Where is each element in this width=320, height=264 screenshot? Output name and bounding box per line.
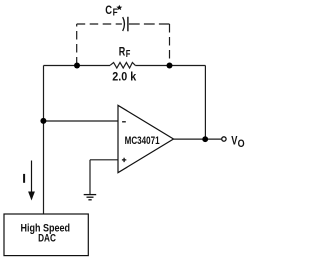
svg-text:O: O bbox=[238, 138, 245, 150]
wire: inverting input branch bbox=[44, 120, 119, 122]
svg-text:R: R bbox=[119, 45, 126, 59]
capacitor CF (straight plate) bbox=[127, 17, 129, 32]
wire: right vertical from RF corner to output bbox=[204, 66, 206, 140]
wire: RF right segment to corner bbox=[135, 65, 205, 67]
op-amp U1 triangle bbox=[118, 105, 174, 172]
svg-text:V: V bbox=[231, 134, 237, 148]
wire: non-inverting input branch bbox=[90, 159, 118, 161]
wire: dashed left vertical of CF loop bbox=[76, 24, 78, 66]
node: junction dot right CF tap bbox=[167, 63, 173, 69]
svg-text:F: F bbox=[113, 8, 118, 19]
output terminal circle bbox=[222, 137, 226, 141]
node: junction dot left CF tap bbox=[74, 63, 80, 69]
svg-text:MC34071: MC34071 bbox=[125, 135, 160, 147]
wire: left vertical from RF to DAC bbox=[43, 66, 45, 215]
High Speed DAC box bbox=[4, 214, 88, 256]
wire: non-inverting to ground bbox=[89, 160, 91, 195]
wire: dashed top left of CF loop bbox=[77, 23, 122, 25]
label I bbox=[23, 174, 25, 183]
current arrow I bbox=[31, 161, 33, 193]
svg-text:C: C bbox=[105, 3, 112, 17]
op-amp U1 minus pin mark bbox=[122, 121, 126, 123]
wire: op-amp output to terminal bbox=[174, 138, 222, 140]
op-amp U1 plus pin mark bbox=[122, 158, 126, 162]
resistor RF zigzag bbox=[110, 63, 135, 69]
svg-text:DAC: DAC bbox=[38, 232, 56, 244]
wire: dashed right vertical of CF loop bbox=[169, 24, 171, 66]
svg-text:2.0 k: 2.0 k bbox=[112, 72, 136, 84]
ground symbol bbox=[84, 195, 97, 200]
node: junction dot output bbox=[202, 136, 208, 142]
wire: RF feedback horizontal bbox=[44, 65, 111, 67]
node: junction dot inverting input bbox=[40, 118, 46, 124]
wire: dashed top right of CF loop bbox=[129, 23, 170, 25]
svg-text:F: F bbox=[126, 49, 131, 60]
capacitor CF (curved plate) bbox=[123, 17, 125, 31]
